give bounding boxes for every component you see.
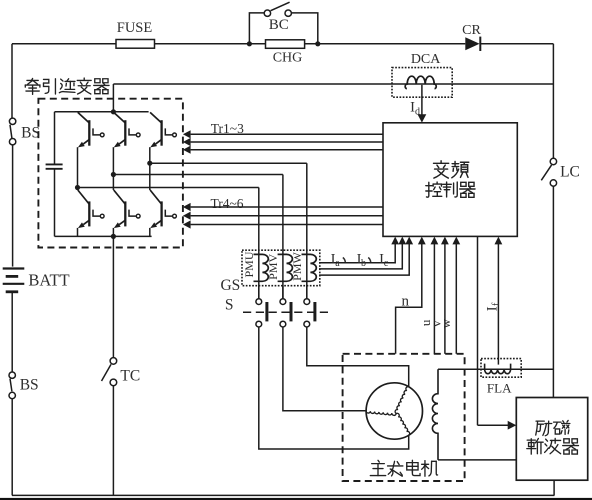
border: figure bottom edge	[0, 498, 592, 500]
switch S1 (star-point contactor)	[256, 286, 269, 327]
node: bottom rail junction	[111, 234, 116, 239]
node: phase output junction leg 3	[147, 161, 152, 166]
svg-text:BS: BS	[21, 125, 40, 142]
current sensor FLA	[481, 359, 521, 396]
node: phase output junction leg 1	[75, 185, 80, 190]
node: junction right of CHG	[315, 41, 320, 46]
wire: phase V to generator terminal	[283, 327, 366, 411]
box: excitation chopper 励磁斩波器	[516, 398, 587, 481]
wire: gate drive line (Tr4~6 group)	[183, 220, 383, 228]
wire: S linkage dashed	[243, 311, 332, 313]
wire: chopper firing signal	[478, 236, 517, 429]
current sensor PMU	[242, 251, 268, 281]
svg-text:CR: CR	[462, 23, 481, 38]
svg-text:c: c	[384, 258, 389, 269]
svg-text:BC: BC	[269, 17, 289, 33]
node: top rail feed junction	[111, 109, 116, 114]
wire: lower BS to bottom rail	[11, 399, 13, 496]
label: If	[484, 302, 502, 311]
svg-text:BS: BS	[20, 377, 39, 394]
label: 变频控制器 (VVVF controller)	[426, 161, 475, 198]
wire: leg 1 lower emitter to bottom rail	[77, 228, 79, 237]
wire: gate drive line (Tr1~3 group)	[183, 138, 383, 146]
diode CR	[462, 23, 481, 51]
wire: gate drive line (Tr1~3 group)	[183, 130, 383, 138]
switch S2 (star-point contactor)	[280, 286, 293, 327]
label: w	[438, 318, 453, 328]
svg-text:w: w	[438, 318, 453, 328]
battery BATT	[3, 269, 70, 292]
label: 励磁斩波器 (excitation chopper)	[527, 420, 579, 454]
wire: bottom return rail	[12, 494, 554, 496]
wire: leg 2 midpoint	[112, 147, 114, 174]
box: generator dashed enclosure 主发电机	[343, 354, 465, 481]
label: 主发电机 (main generator)	[370, 460, 437, 476]
wire: Ib sense line	[319, 237, 406, 269]
svg-text:DCA: DCA	[411, 52, 441, 67]
wire: n speed feedback	[396, 237, 426, 354]
svg-text:TC: TC	[120, 368, 140, 385]
wire: leg 3 midpoint	[149, 147, 151, 163]
box: inverter dashed enclosure 牵引逆变器	[38, 99, 183, 248]
wire: phase U to generator terminal	[259, 327, 409, 449]
wire: phase V output to PMV	[113, 175, 283, 299]
svg-text:n: n	[402, 294, 410, 310]
svg-text:a: a	[335, 258, 340, 269]
wire: inverter top rail	[55, 111, 149, 113]
controller box U1 变频控制器	[383, 123, 517, 237]
label: gate drive Tr4~6	[210, 196, 243, 211]
label: v	[429, 320, 444, 327]
wire: gate drive line (Tr4~6 group)	[183, 203, 383, 211]
label: switch group S	[225, 297, 234, 314]
wire: right rail LC down to excitation chopper	[552, 186, 554, 397]
capacitor C (DC link)	[46, 112, 63, 237]
wire: inverter bottom rail	[55, 235, 152, 237]
svg-text:LC: LC	[560, 164, 580, 181]
switch BS (battery switch, upper)	[9, 118, 40, 145]
wire: left rail from fuse bus down to BS	[11, 44, 13, 118]
switch BS (battery switch, lower)	[9, 372, 39, 399]
switch LC (line contactor)	[541, 158, 580, 186]
transistor Tr4 (lower IGBT leg 1)	[78, 190, 104, 228]
wire: If field current sense	[495, 237, 503, 365]
label: gate drive Tr1~3	[211, 121, 244, 136]
svg-text:d: d	[415, 106, 420, 117]
wire: chopper to bottom rail	[553, 480, 555, 495]
wire: v sense line	[441, 237, 449, 354]
label: Ia Ib Ic	[331, 252, 389, 270]
svg-text:FLA: FLA	[487, 381, 512, 396]
wire: phase U output to PMU	[78, 188, 259, 299]
wire: Ic sense line	[319, 237, 413, 276]
svg-text:b: b	[361, 258, 366, 269]
label: n	[402, 294, 410, 310]
wire: w sense line	[452, 237, 460, 354]
node: phase output junction leg 2	[111, 172, 116, 177]
switch TC	[102, 358, 141, 386]
wire: leg 1 midpoint	[77, 147, 79, 187]
wire: leg 2 lower emitter to bottom rail	[112, 228, 114, 237]
transistor Tr5 (lower IGBT leg 2)	[114, 190, 140, 228]
svg-text:CHG: CHG	[273, 51, 303, 66]
wire: TC to bottom rail	[112, 386, 114, 496]
wire: phase W to generator terminal	[307, 327, 409, 387]
wire: battery to lower BS	[11, 292, 13, 372]
current sensor DCA	[392, 52, 452, 97]
svg-text:S: S	[225, 297, 234, 314]
transistor Tr3 (upper IGBT leg 3)	[150, 112, 176, 147]
wire: DC bus y=84 from inverter to right rail	[113, 84, 553, 112]
svg-text:GS: GS	[220, 277, 240, 294]
wire: leg 2 mid to lower device	[112, 175, 114, 191]
label: 牵引逆变器 (traction inverter)	[25, 78, 109, 94]
wire: leg 3 lower emitter to bottom rail	[149, 228, 151, 237]
current sensor PMW	[290, 251, 316, 281]
transistor Tr6 (lower IGBT leg 3)	[150, 190, 176, 228]
wire: gate drive line (Tr4~6 group)	[183, 212, 383, 220]
fuse FUSE	[116, 20, 155, 48]
svg-text:BATT: BATT	[28, 271, 69, 290]
wire: u sense line	[431, 237, 439, 354]
wire: leg 3 mid to lower device	[149, 163, 151, 190]
inductor: generator field winding	[432, 369, 516, 460]
label: u	[418, 319, 433, 326]
wire: Id measurement arrow into controller	[410, 85, 426, 123]
wire: gate drive line (Tr1~3 group)	[183, 146, 383, 154]
svg-text:I: I	[484, 306, 500, 311]
svg-text:Tr4~6: Tr4~6	[210, 196, 243, 211]
wire: inverter negative rail down to TC	[112, 236, 114, 357]
wire: leg 1 mid to lower device	[77, 188, 79, 191]
resistor CHG (charging resistor)	[266, 40, 305, 66]
svg-text:PMV: PMV	[266, 253, 280, 279]
wire: field supply through FLA to right rail	[438, 368, 553, 370]
switch BC (battery charging contactor)	[264, 2, 291, 33]
current sensor PMV	[266, 253, 292, 281]
node: junction left of CHG	[247, 41, 252, 46]
wire: top battery positive bus y=43.8	[12, 43, 553, 45]
switch S3 (star-point contactor)	[304, 286, 317, 327]
transistor Tr2 (upper IGBT leg 2)	[114, 112, 140, 147]
wire: BS to battery	[12, 145, 14, 267]
wire: BC bypass loop	[249, 13, 317, 44]
wire: right rail from CR to LC	[552, 44, 554, 159]
wire: phase W output to PMW	[150, 163, 307, 299]
current sensor box GS (PMU PMV PMW)	[220, 250, 319, 294]
svg-text:PMU: PMU	[242, 251, 256, 277]
generator G (stator circle with Y winding)	[366, 383, 422, 439]
wire: Ia sense line	[319, 237, 399, 263]
svg-text:PMW: PMW	[290, 251, 304, 280]
svg-text:FUSE: FUSE	[117, 20, 153, 36]
transistor Tr1 (upper IGBT leg 1)	[78, 112, 104, 147]
